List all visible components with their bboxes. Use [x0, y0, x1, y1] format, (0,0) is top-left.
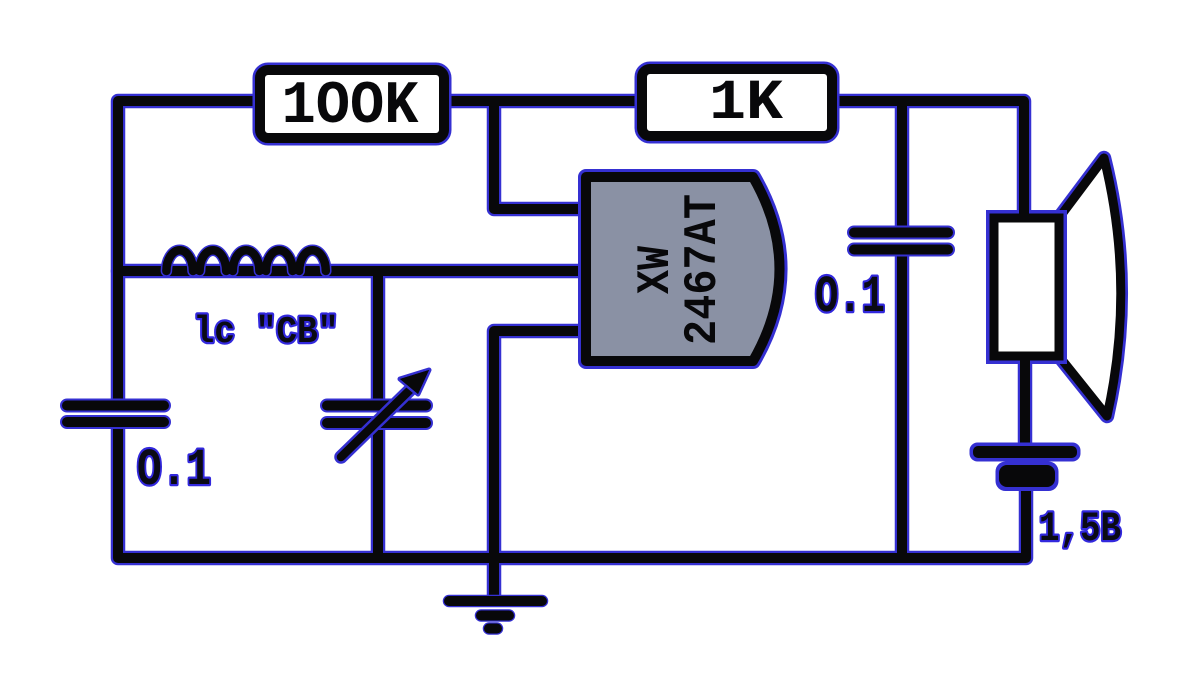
battery B1 long plate: [970, 443, 1081, 462]
wire stub speaker bottom to battery: [1020, 352, 1030, 372]
variable capacitor C2 arrow: [341, 370, 429, 457]
resistor R1 100K: [260, 70, 444, 141]
svg-text:1OOK: 1OOK: [282, 73, 419, 141]
wire net V+ (top bus with branches to IC pin1 and C3): [118, 101, 1024, 402]
variable capacitor C2 plates: [327, 406, 426, 424]
capacitor C3 plates: [854, 233, 948, 250]
svg-text:XW: XW: [630, 246, 682, 294]
wire ground net (bottom bus, cap legs, IC pin3 leg, speaker/battery leg): [118, 250, 1026, 599]
ground symbol: [449, 601, 542, 629]
resistor R2 1K: [642, 69, 832, 136]
svg-text:O.1: O.1: [815, 268, 885, 327]
wire stub to speaker top: [1019, 204, 1029, 222]
speaker driver rectangle: [994, 218, 1059, 356]
svg-text:1K: 1K: [709, 72, 784, 136]
capacitor C1 plates: [67, 406, 164, 423]
svg-text:O.1: O.1: [137, 441, 211, 500]
inductor L1 coil: [166, 250, 325, 271]
junction node at left rail and coil feed: [113, 258, 123, 284]
IC U1 TA7642 body: [586, 177, 780, 361]
speaker horn: [1059, 158, 1121, 416]
svg-text:2467AT: 2467AT: [677, 194, 729, 345]
svg-text:lc "CB": lc "CB": [194, 311, 339, 354]
battery B1 short plate: [996, 462, 1059, 492]
wire tank node (coil feed, detector line to IC pin2, branch to C2): [118, 271, 592, 402]
svg-text:1,5B: 1,5B: [1039, 505, 1121, 553]
